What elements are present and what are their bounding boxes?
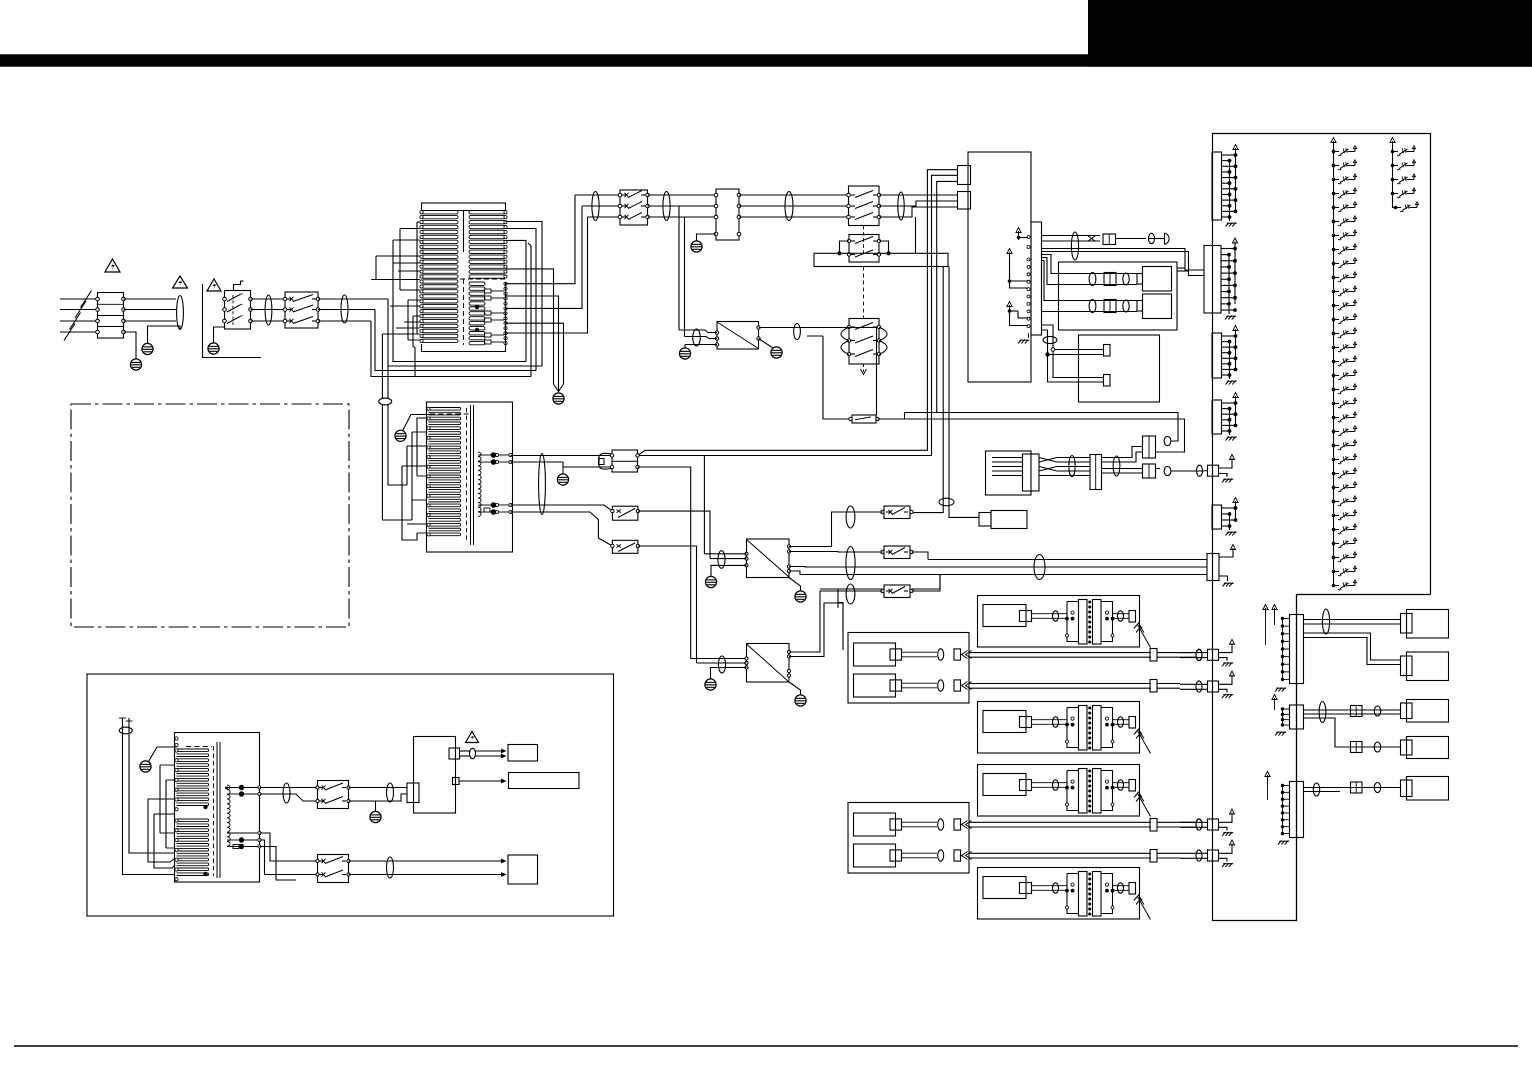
wires U2 outputs to modules bus: [789, 603, 843, 657]
ferrite bead FB12: [1149, 233, 1155, 243]
ferrite sleeve FB37: [387, 857, 394, 878]
transformer T1 tertiary windings with fuse taps: [469, 282, 504, 345]
wires CN3 out: [1102, 447, 1143, 474]
horn speaker HA1: [1165, 233, 1170, 245]
transformer T1 bottom yoke: [422, 344, 506, 352]
link wires DS2 rows to panel entries: [969, 822, 1196, 858]
lamp box: [508, 855, 538, 884]
control unit connector: [407, 783, 419, 803]
ferrite sleeve FB20: [846, 506, 855, 528]
wires T3 to switch S7: [260, 788, 318, 802]
wide ferrite FB33 on aux feeder: [119, 727, 132, 734]
connector plug P1: [599, 450, 640, 472]
wire to earth symbol E1 and ferrite drain: [148, 326, 181, 343]
wire G1 minus to earth: [759, 339, 772, 348]
fuse F1: [849, 415, 879, 423]
wire right wrap-around bus: [506, 222, 543, 377]
earth symbol E10 at U1: [705, 565, 746, 587]
ferrite sleeve FB16 at U2 input: [718, 656, 725, 673]
sensor connector b: [1104, 375, 1111, 387]
transformer T3 primary winding: [175, 737, 209, 881]
wide ferrite on sensor pair: [1043, 336, 1057, 343]
speaker channel A (ferrite, connector, ferrite, speaker): [1059, 267, 1172, 292]
wires S5: [789, 552, 928, 560]
lighting switch S5: [881, 546, 913, 559]
inline connector CN10: [1150, 819, 1157, 832]
inline connector CN6: [1351, 742, 1363, 753]
wires into G1: [679, 330, 717, 345]
protective earth symbol E2: [130, 359, 141, 370]
display bar box: [509, 773, 580, 789]
earth symbol E5 at X2: [691, 234, 716, 252]
panel connector PC6 (comb): [1212, 498, 1238, 536]
dual source unit DS2: [848, 803, 972, 874]
ferrite sleeve FB15 at U1 input: [718, 551, 725, 569]
wire from panel interior to output connectors: [1296, 595, 1298, 921]
device D4 inlet connector: [1401, 740, 1413, 755]
ferrite sleeve FB11 (tall): [1071, 232, 1078, 260]
terminal block X1 (mains inlet): [96, 293, 126, 339]
transformer T1 top yoke: [422, 203, 506, 252]
inline connector CN7: [1351, 782, 1363, 793]
isolation module M3: [978, 765, 1151, 817]
auxiliary relay K3: [837, 235, 890, 263]
thermal trip mark above breaker: [234, 281, 244, 290]
wire phase3 to bus bar: [915, 217, 917, 253]
ferrite bead FB19: [1164, 466, 1171, 475]
inline connector CN11: [1150, 850, 1157, 863]
circuit breaker CB1: [223, 291, 253, 330]
operator keypad box: [986, 451, 1032, 495]
wire to fuse F1: [823, 336, 849, 419]
controller PCB A1: [968, 152, 1031, 382]
DC bus pair to panel (long horizontals): [878, 413, 1185, 453]
link wires DS1 rows to panel entries: [969, 653, 1196, 689]
earth symbol E14 (T3 screen): [140, 747, 177, 772]
wires S2 S3 to DC converters: [638, 456, 710, 664]
lighting switch S6: [881, 585, 913, 598]
T2 primary tap wiring nest: [402, 418, 427, 540]
transformer T2 secondary terminals: [478, 452, 512, 515]
transformer T2 primary winding: [427, 407, 461, 536]
transformer T2 top screen dashes and earth: [403, 414, 470, 430]
transformer T1 primary winding (left stack): [420, 211, 458, 343]
warning triangle at breaker: [207, 279, 221, 291]
header title block (redacted black banner): [0, 0, 1532, 67]
AV interface box: [1059, 262, 1178, 330]
transformer T1 secondary terminal rail: [504, 282, 507, 345]
mains supply cable (4 conductors with slash marks): [60, 291, 98, 341]
earth symbol E11 at U1 output: [789, 578, 806, 603]
wires S8 to lamp box: [349, 859, 507, 877]
control unit output connector b: [453, 778, 460, 785]
interlock switch S3: [611, 540, 640, 553]
device D2 box: [1407, 652, 1449, 681]
protective earth symbol E4 (T1 screens): [553, 393, 564, 404]
wires to sensor box: [1042, 325, 1104, 382]
wire primary tap bundle (left side): [371, 222, 420, 340]
fuse-switch column A: [1331, 138, 1357, 590]
T2 output wires lower pair: [511, 505, 613, 546]
wires CB1 to ferrite FB2: [251, 299, 286, 321]
wires OC2 row2: [1345, 746, 1401, 748]
T2 primary feeder pair entering enclosure: [382, 404, 412, 520]
earth symbol E12 at U2: [705, 668, 747, 691]
aux control unit box: [414, 737, 456, 814]
ferrite bead FB13: [1164, 436, 1171, 445]
isolation module M4: [978, 868, 1151, 920]
wire CN4 to panel: [1156, 469, 1205, 472]
ferrite sleeve FB35: [387, 783, 394, 802]
device D5 box: [1407, 777, 1449, 801]
transformer T2 core (dashed+solid): [467, 405, 474, 545]
auxiliary power enclosure: [87, 674, 614, 916]
control unit output connector a: [449, 748, 460, 759]
wire screen drains to earth: [506, 269, 564, 392]
transformer T1 secondary winding upper (right stack): [469, 211, 507, 279]
wires J1 trunk risers: [638, 170, 958, 456]
panel connector PC1 (comb): [1212, 145, 1238, 227]
wires K2 to controller A1: [879, 195, 958, 217]
keypad power plug: [979, 511, 1027, 529]
wires module feed: [820, 575, 940, 650]
DC converter U2: [745, 644, 791, 683]
ferrite sleeve FB34: [283, 783, 290, 803]
speaker channel B: [1059, 294, 1172, 319]
wire to display: [459, 779, 507, 784]
T3 top screen dashes: [186, 746, 212, 748]
panel connector PC3 (comb): [1212, 326, 1238, 385]
ferrite sleeve FB17: [1069, 456, 1075, 477]
ferrite sleeve FB4 on T2 feeder pair: [379, 398, 392, 405]
contactor K2 (three pole): [847, 186, 881, 256]
wires to indicator: [460, 749, 507, 759]
shield arrow mid J3: [1007, 249, 1028, 289]
inline connector CN4: [1143, 464, 1156, 478]
ferrite sleeve FB10 at G1 output: [794, 324, 801, 340]
wires T3 lower to switch S8: [260, 833, 318, 880]
wire AV box to panel connector: [1177, 268, 1189, 271]
wide ferrite on keypad feed: [939, 498, 954, 506]
earth symbol E15: [370, 801, 381, 823]
wires OC1 to device box D1: [1304, 620, 1401, 665]
ferrite sleeve FB14 (tall) on T2 outputs: [539, 454, 546, 515]
wire loom J3 to AV interface (right then down): [1042, 249, 1205, 312]
ferrite sleeve FB18: [1113, 456, 1120, 476]
mechanical trip link (dashed): [863, 267, 865, 319]
warning triangle (hazardous voltage) near inlet: [105, 259, 120, 272]
sensor interface box: [1079, 335, 1160, 402]
ferrite bead FB30: [1196, 649, 1202, 660]
wires to inline connector CN3: [1057, 458, 1090, 476]
device D3 inlet connector: [1401, 703, 1413, 719]
transformer T3 secondary winding: [227, 785, 230, 846]
T2 output wires upper pair: [511, 456, 613, 468]
cable entry CE2: [1180, 671, 1235, 698]
indicator box: [508, 745, 538, 762]
device D1 box: [1407, 610, 1449, 639]
T3 secondary terminals: [203, 785, 261, 876]
switch S7 (dual pole): [316, 781, 350, 809]
tap to rectifier G1 (phase 2): [678, 206, 680, 330]
device D3 box: [1407, 700, 1449, 723]
isolation module M2: [978, 702, 1151, 754]
ferrite sleeve FB9 at G1 input: [693, 329, 701, 346]
wires OC3 to device D5: [1304, 788, 1401, 792]
isolation module M1: [978, 596, 1151, 648]
earth symbol E13 at U2 output: [789, 682, 806, 706]
tap to rectifier G1 (phase 3): [684, 217, 686, 337]
switch S8 (dual pole): [316, 855, 350, 883]
ferrite bead FB26: [1374, 706, 1380, 716]
aux transformer T3 enclosure: [175, 733, 260, 883]
cable entry CE1: [1180, 639, 1235, 666]
ferrite sleeve FB6: [663, 192, 670, 221]
wire L1-L3 from inlet to line filter: [124, 299, 177, 321]
ferrite sleeve FB2: [265, 295, 272, 325]
ferrite sleeve FB8: [898, 192, 904, 220]
inline connector CN2: [1143, 436, 1156, 458]
pin header J3 on A1 (right edge): [1027, 222, 1042, 335]
ferrite bead FB36: [470, 748, 476, 758]
wire CN1 to horn: [1116, 238, 1165, 240]
inline connector CN9: [1150, 680, 1157, 693]
ferrite bead FB31: [1196, 819, 1202, 830]
ferrite sleeve FB5: [592, 192, 599, 221]
crossover wires: [1039, 458, 1057, 476]
dual source unit DS1: [848, 633, 972, 704]
coaxial lead to microphone: [1042, 236, 1101, 242]
connector J1 on A1: [958, 166, 971, 185]
interlock switch S2: [611, 506, 640, 520]
panel connector PC2 (comb with housing): [1204, 238, 1238, 320]
device D2 inlet connector: [1401, 656, 1413, 676]
transformer T1 core screen (dashed): [460, 279, 505, 345]
wires S7 to control unit: [349, 788, 408, 802]
chassis rake below J3: [1018, 333, 1029, 344]
earth symbol E6 at G1 input: [679, 345, 690, 360]
wire G1 plus output: [759, 328, 877, 416]
output connector OC3 (strip): [1265, 772, 1304, 845]
device D4 box: [1407, 737, 1449, 759]
DC converter U1: [745, 539, 791, 578]
inline connector CN5: [1351, 706, 1363, 717]
ferrite bead FB28: [1313, 783, 1319, 796]
warning triangle above line ferrite: [173, 276, 188, 288]
distribution panel enclosure: [1213, 134, 1431, 921]
ferrite sleeve FB21: [846, 547, 855, 580]
terminal block X2: [714, 189, 741, 240]
wires K1 to transformer input: [318, 299, 388, 321]
panel connector PC5 (cable entry): [1197, 455, 1235, 483]
T3 primary tap nest: [148, 765, 175, 868]
keypad connector strip: [1023, 454, 1040, 491]
earth symbol E7 at G1 output: [771, 347, 782, 358]
panel connector PC4 (comb): [1212, 393, 1238, 441]
cable entry CE3: [1180, 809, 1235, 836]
ferrite bead FB29: [1374, 783, 1380, 793]
equipment boundary line: [203, 284, 262, 358]
wires into U1: [704, 554, 746, 559]
rectifier G1 (AC/DC converter): [715, 322, 760, 350]
ferrite sleeve FB7: [785, 192, 793, 221]
wires S1 to terminal block X2: [648, 195, 717, 217]
shield arrow at J3 pin1: [1016, 228, 1028, 241]
wires OC2 row1: [1304, 710, 1401, 747]
shield arrow lower J3: [1007, 302, 1028, 326]
protective earth symbol E8 (T2 screen): [395, 430, 406, 441]
output connector OC2 (strip): [1272, 695, 1304, 736]
aux feeder pair with ferrite: [119, 718, 175, 875]
bus bar strip: [814, 253, 948, 266]
earth symbol E3 at boundary: [208, 327, 225, 354]
inline connector CN3: [1090, 455, 1102, 490]
isolator switch S1: [618, 190, 649, 225]
ferrite sleeve FB22: [846, 584, 855, 604]
ferrite sleeve FB3: [341, 295, 348, 323]
protective earth symbol E1: [142, 343, 153, 354]
sensor connector a: [1104, 345, 1111, 357]
relay feed pair down to keypad plug: [912, 267, 980, 518]
inline connector CN1: [1103, 234, 1116, 245]
supply bus to panel lighting connector: [789, 560, 1207, 575]
cable entry CE4: [1180, 840, 1235, 867]
ferrite sleeve FB24: [1322, 609, 1329, 634]
transformer T3 core: [214, 742, 221, 878]
large ferrite sleeve FB23 on lighting bus: [1034, 555, 1045, 580]
motor-drive contactor K4 with arc contacts: [841, 319, 887, 375]
dash-dot option enclosure (empty): [71, 404, 349, 627]
wires S4: [789, 512, 883, 547]
ferrite bead FB27: [1374, 742, 1380, 752]
lighting switch S4: [881, 506, 913, 519]
footer rule: [14, 1045, 1518, 1047]
device D1 inlet connector: [1401, 614, 1413, 634]
mains contactor K1: [283, 292, 320, 328]
warning triangle at control unit: [466, 732, 479, 743]
transformer T2 secondary winding: [478, 452, 481, 516]
wires into U2: [697, 662, 747, 664]
wire left feeder verticals to bottom bus: [371, 222, 542, 399]
device D5 inlet connector: [1401, 780, 1413, 797]
fuse-switch column B: [1390, 138, 1419, 212]
wires X2 to contactor K2: [739, 195, 849, 217]
wire P1 pin2 tee: [638, 467, 747, 659]
connector J2 on A1: [958, 192, 971, 210]
panel connector PC7 (cable entry, lighting bus): [1207, 545, 1236, 587]
wires S6: [789, 575, 940, 653]
wire PE from inlet down to earth: [124, 332, 137, 359]
ferrite sleeve FB1 on mains lines: [177, 296, 184, 330]
wire secondary output risers to isolator: [506, 195, 588, 333]
output connector OC1 (strip): [1263, 605, 1304, 692]
wires FB5 region: [575, 195, 620, 217]
inline connector CN8: [1150, 649, 1157, 662]
ferrite sleeve FB25: [1319, 702, 1326, 723]
transformer T2 enclosure: [427, 402, 513, 552]
earth symbol E9 on output screen: [557, 467, 568, 485]
